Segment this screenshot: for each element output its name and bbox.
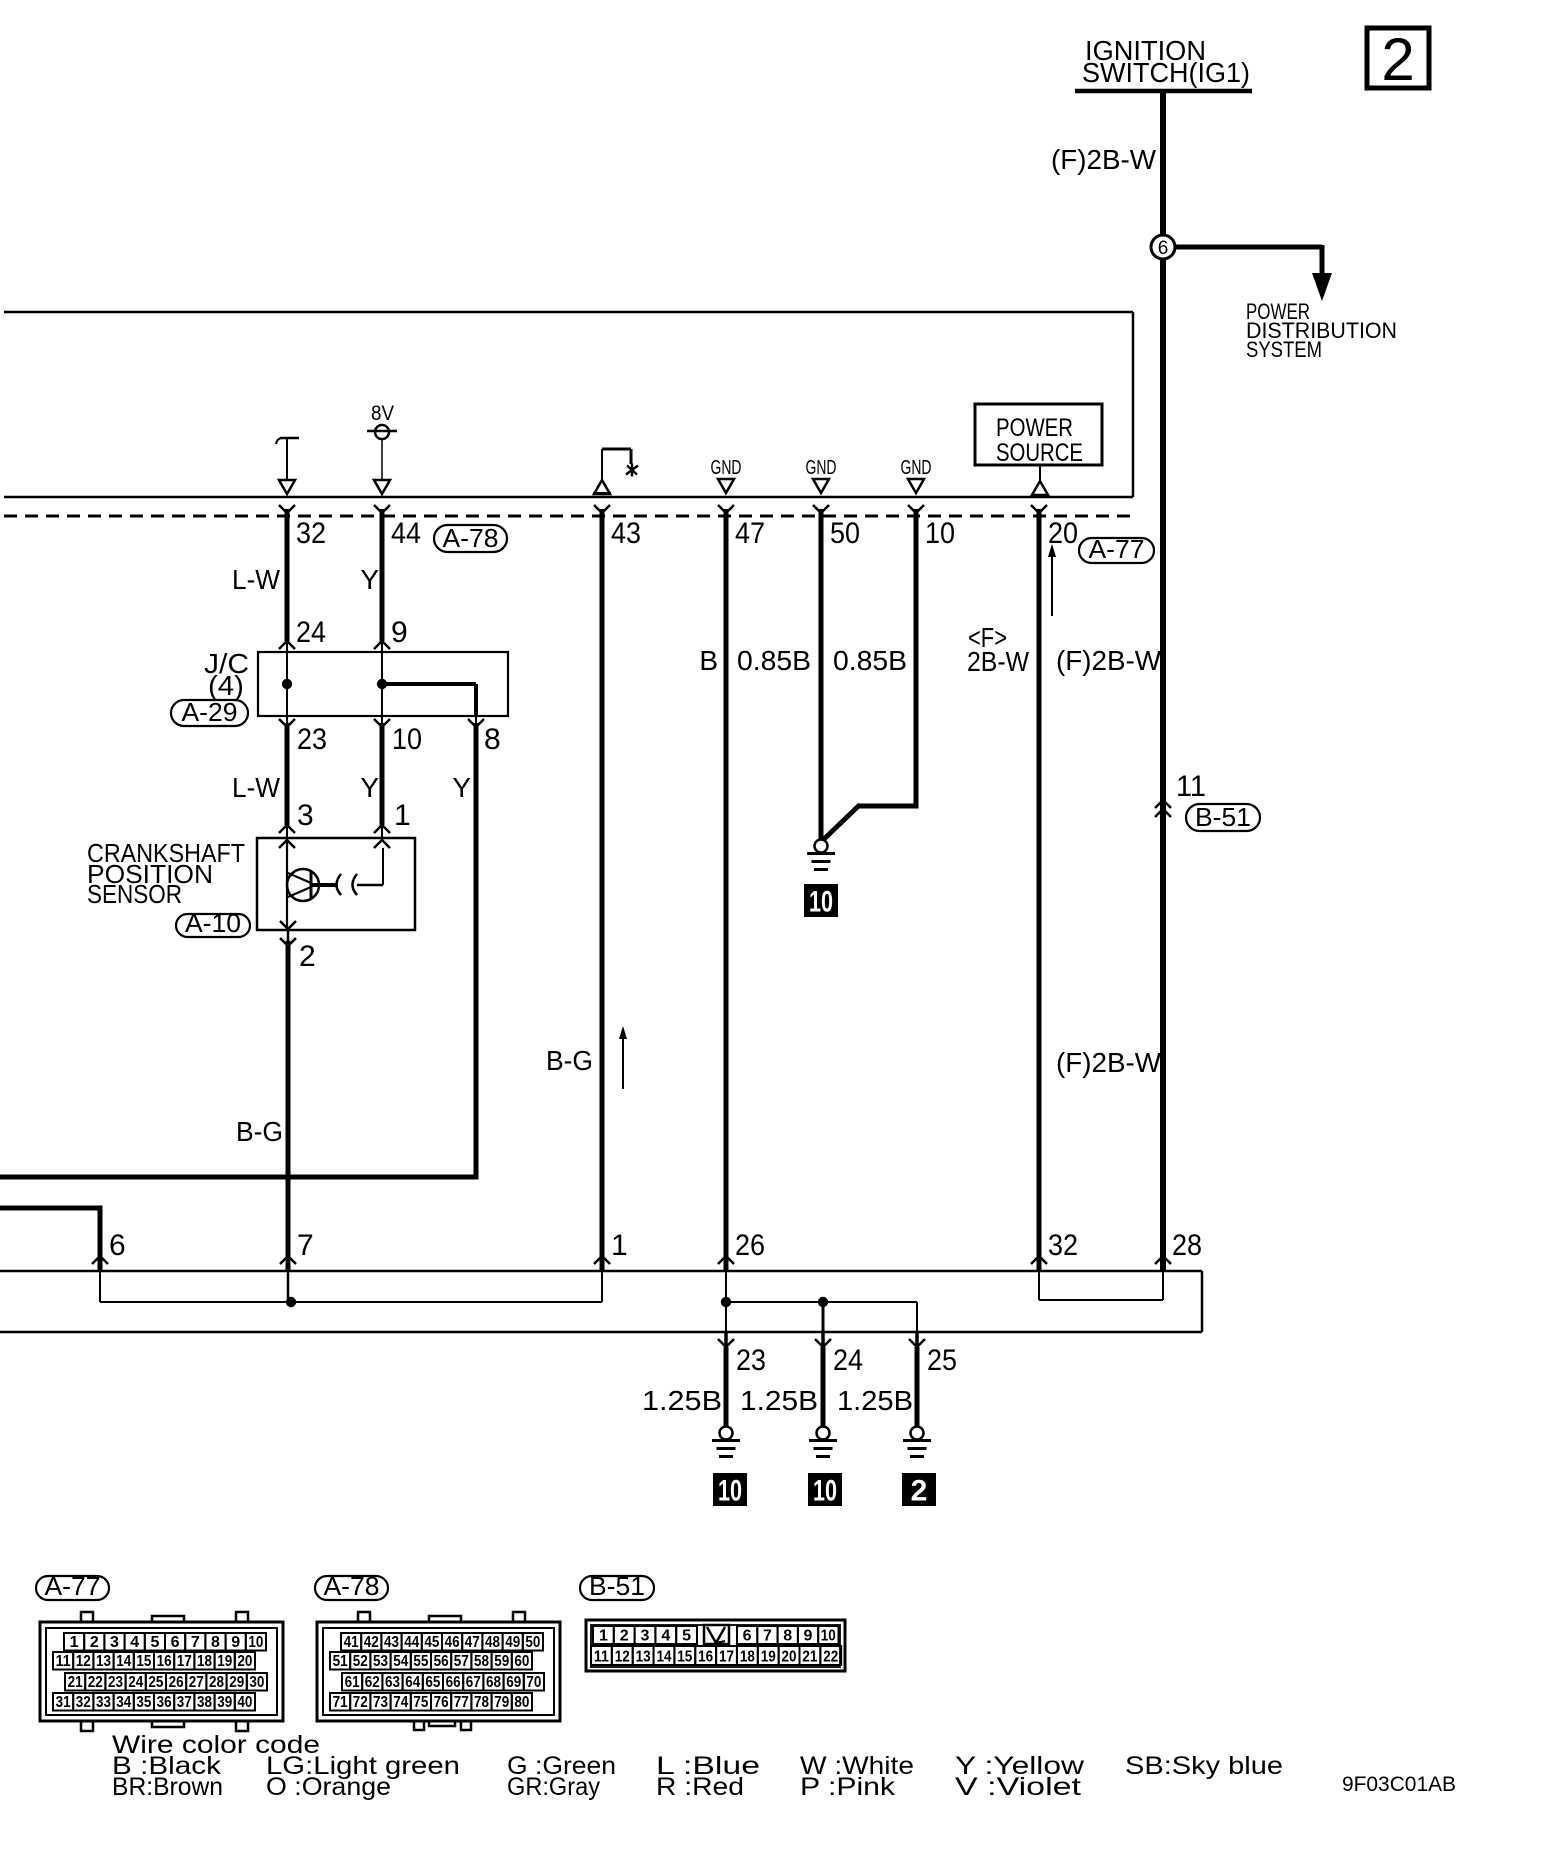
svg-text:47: 47 <box>465 1634 480 1651</box>
svg-text:GND: GND <box>901 457 932 479</box>
svg-text:SENSOR: SENSOR <box>87 879 182 909</box>
svg-text:66: 66 <box>446 1674 461 1691</box>
svg-text:37: 37 <box>177 1694 192 1711</box>
svg-text:73: 73 <box>373 1694 388 1711</box>
svg-text:6: 6 <box>171 1634 180 1651</box>
ECM pin 23 chevron and label <box>718 1339 766 1377</box>
ECM box <box>0 1271 1202 1332</box>
ground symbol pin 25 <box>903 1427 931 1457</box>
svg-text:71: 71 <box>333 1694 348 1711</box>
svg-text:BR:Brown: BR:Brown <box>112 1773 223 1801</box>
svg-text:R :Red: R :Red <box>656 1773 744 1801</box>
ground ref blackbox 10 <box>713 1473 747 1508</box>
wire branch to power distribution system <box>1163 245 1332 301</box>
pin 43 chevron at ECU connector <box>594 505 610 513</box>
svg-text:61: 61 <box>345 1674 360 1691</box>
svg-text:32: 32 <box>76 1694 91 1711</box>
ECM pin 7 chevron and label <box>280 1229 314 1264</box>
svg-text:8: 8 <box>783 1628 792 1645</box>
pin 50 label <box>830 517 860 550</box>
crankshaft position sensor box A-10 <box>257 838 415 930</box>
svg-text:21: 21 <box>802 1649 817 1666</box>
wire sensor pin 2 B-G to ECM pin 7 <box>287 931 290 1272</box>
label (F)2B-W lower <box>1056 1047 1162 1078</box>
svg-text:16: 16 <box>698 1649 713 1666</box>
svg-text:68: 68 <box>486 1674 501 1691</box>
svg-text:64: 64 <box>405 1674 420 1691</box>
svg-text:SOURCE: SOURCE <box>996 439 1083 467</box>
svg-text:3: 3 <box>110 1634 119 1651</box>
label CRANKSHAFT POSITION SENSOR <box>87 838 245 909</box>
sensor pin 3 chevron and label <box>279 799 314 833</box>
node IGNITION SWITCH(IG1) label <box>1075 35 1252 91</box>
ECM internal link pins 32-28 <box>1039 1271 1163 1300</box>
svg-text:Y: Y <box>360 772 379 803</box>
wire J/C 8 Y to off-page left <box>0 716 479 1180</box>
svg-text:44: 44 <box>404 1634 419 1651</box>
label Y third <box>452 772 471 803</box>
J/C pin 23 chevron and label <box>279 719 327 756</box>
label Y second <box>360 772 379 803</box>
ground symbol mid (wires 50/10) <box>807 840 835 870</box>
svg-text:B-G: B-G <box>546 1045 593 1076</box>
pin 47 label <box>735 517 765 550</box>
svg-text:44: 44 <box>391 517 421 550</box>
svg-text:24: 24 <box>128 1674 143 1691</box>
svg-text:A-77: A-77 <box>1089 534 1145 564</box>
label L-W lower <box>232 772 281 803</box>
J/C pin 9 chevron and label <box>374 616 408 649</box>
wire off-page left to ECM pin 6 <box>0 1206 100 1273</box>
pin 50 chevron at ECU connector <box>813 505 829 513</box>
svg-text:B-51: B-51 <box>1195 802 1251 832</box>
connector ref A-78 bottom <box>315 1571 388 1601</box>
connector ref A-78 <box>434 523 507 553</box>
labels 1.25B x3 <box>642 1385 913 1416</box>
svg-text:1: 1 <box>611 1229 628 1262</box>
svg-text:32: 32 <box>1048 1229 1078 1262</box>
svg-text:48: 48 <box>485 1634 500 1651</box>
label 0.85B second <box>833 645 907 676</box>
svg-text:76: 76 <box>434 1694 449 1711</box>
svg-text:SB:Sky blue: SB:Sky blue <box>1125 1752 1283 1780</box>
connector view A-77 pin grid <box>40 1612 283 1731</box>
wire ignition node 6 down to ECM pin 28 <box>1160 247 1166 1272</box>
ECM pin 6 chevron and label <box>92 1229 126 1264</box>
label Y <box>360 564 379 595</box>
svg-text:8: 8 <box>484 723 501 756</box>
svg-text:60: 60 <box>514 1653 529 1670</box>
svg-text:1.25B: 1.25B <box>642 1385 722 1416</box>
svg-text:B-51: B-51 <box>589 1571 645 1601</box>
pin 43 label <box>611 517 641 550</box>
wire pin 47 B to ECM pin 26 <box>724 509 729 1272</box>
svg-text:23: 23 <box>736 1344 766 1377</box>
ground ref blackbox 10 mid <box>804 884 838 919</box>
svg-text:13: 13 <box>96 1653 111 1670</box>
svg-text:10: 10 <box>718 1475 742 1508</box>
svg-text:25: 25 <box>927 1344 957 1377</box>
svg-text:GR:Gray: GR:Gray <box>507 1773 600 1801</box>
svg-text:49: 49 <box>505 1634 520 1651</box>
pin 44 label <box>391 517 421 550</box>
wire ECM pin 25 1.25B to ground <box>915 1332 919 1426</box>
svg-text:2: 2 <box>90 1634 99 1651</box>
svg-text:42: 42 <box>364 1634 379 1651</box>
svg-text:22: 22 <box>823 1649 838 1666</box>
J/C pin 8 chevron and label <box>468 719 501 756</box>
svg-text:20: 20 <box>1048 517 1078 550</box>
connector ref B-51 bottom <box>580 1571 654 1601</box>
svg-text:63: 63 <box>385 1674 400 1691</box>
svg-text:18: 18 <box>197 1653 212 1670</box>
svg-text:17: 17 <box>719 1649 734 1666</box>
ECM internal link pins 6-7-1 <box>100 1271 602 1307</box>
svg-text:34: 34 <box>116 1694 131 1711</box>
sensor internal chevrons at pins 3 and 1 <box>279 840 390 848</box>
wire pin 44 Y to J/C pin 9 <box>380 509 385 653</box>
svg-text:GND: GND <box>806 457 837 479</box>
svg-text:6: 6 <box>1158 238 1169 259</box>
connector view A-78 pin grid <box>317 1612 560 1730</box>
ECM pin 32 chevron and label <box>1031 1229 1078 1264</box>
svg-text:78: 78 <box>474 1694 489 1711</box>
J/C pin 24 chevron and label <box>279 616 326 649</box>
wire color code legend <box>112 1731 1283 1801</box>
svg-text:40: 40 <box>237 1694 252 1711</box>
svg-text:19: 19 <box>761 1649 776 1666</box>
svg-text:35: 35 <box>136 1694 151 1711</box>
ECM pin 25 chevron and label <box>909 1339 957 1377</box>
wire pin 10 0.85B to ground 10 <box>822 509 919 841</box>
wire ECM pin 24 1.25B to ground <box>821 1332 825 1426</box>
J/C pin 10 chevron and label <box>374 719 422 756</box>
svg-text:20: 20 <box>237 1653 252 1670</box>
svg-text:20: 20 <box>782 1649 797 1666</box>
label J/C (4) <box>204 648 249 701</box>
pin 10 label <box>925 517 955 550</box>
svg-text:1.25B: 1.25B <box>740 1385 818 1416</box>
pin 20 chevron at ECU connector <box>1031 505 1047 513</box>
svg-text:58: 58 <box>474 1653 489 1670</box>
svg-text:39: 39 <box>217 1694 232 1711</box>
svg-text:B-G: B-G <box>236 1116 283 1147</box>
svg-text:1.25B: 1.25B <box>837 1385 913 1416</box>
drawing code 9F03C01AB <box>1342 1773 1456 1796</box>
svg-text:B: B <box>699 645 718 676</box>
svg-text:24: 24 <box>296 616 326 649</box>
svg-text:15: 15 <box>136 1653 151 1670</box>
svg-text:57: 57 <box>454 1653 469 1670</box>
svg-text:3: 3 <box>297 799 314 832</box>
POWER SOURCE box <box>975 404 1102 467</box>
svg-text:(F)2B-W: (F)2B-W <box>1056 1047 1162 1078</box>
svg-text:75: 75 <box>413 1694 428 1711</box>
svg-text:Y: Y <box>452 772 471 803</box>
svg-text:2: 2 <box>299 940 316 973</box>
pin 47 chevron at ECU connector <box>718 505 734 513</box>
svg-text:2: 2 <box>911 1475 928 1508</box>
svg-text:11: 11 <box>594 1649 609 1666</box>
connector B-51 crossing on ignition wire, pin 11 <box>1155 770 1260 832</box>
svg-text:74: 74 <box>393 1694 408 1711</box>
svg-text:43: 43 <box>611 517 641 550</box>
pin 32 chevron at ECU connector <box>279 505 295 513</box>
connector ref A-10 <box>176 908 250 938</box>
sensor internal pickup symbol <box>287 840 383 930</box>
svg-text:46: 46 <box>445 1634 460 1651</box>
svg-text:7: 7 <box>191 1634 200 1651</box>
svg-text:26: 26 <box>169 1674 184 1691</box>
svg-text:Y: Y <box>360 564 379 595</box>
svg-text:51: 51 <box>333 1653 348 1670</box>
svg-text:80: 80 <box>514 1694 529 1711</box>
svg-text:30: 30 <box>249 1674 264 1691</box>
svg-text:29: 29 <box>229 1674 244 1691</box>
svg-text:9F03C01AB: 9F03C01AB <box>1342 1773 1456 1796</box>
ground symbol pin 24 <box>809 1427 837 1457</box>
svg-text:10: 10 <box>809 886 833 919</box>
svg-text:55: 55 <box>413 1653 428 1670</box>
svg-text:52: 52 <box>353 1653 368 1670</box>
connector view B-51 pin grid <box>586 1620 845 1671</box>
svg-text:11: 11 <box>56 1653 71 1670</box>
junction block J/C (4) box <box>258 652 508 716</box>
svg-text:0.85B: 0.85B <box>737 645 811 676</box>
svg-text:A-10: A-10 <box>185 908 241 938</box>
svg-text:38: 38 <box>197 1694 212 1711</box>
ground ref blackbox 2 <box>902 1473 936 1508</box>
ECM pin 26 chevron and label <box>718 1229 765 1264</box>
svg-text:9: 9 <box>391 616 408 649</box>
svg-text:6: 6 <box>109 1229 126 1262</box>
ECU box (engine control module, off-page left) <box>4 312 1133 497</box>
svg-text:72: 72 <box>353 1694 368 1711</box>
svg-text:A-78: A-78 <box>443 523 499 553</box>
svg-text:12: 12 <box>615 1649 630 1666</box>
label B-G lower left <box>236 1116 283 1147</box>
wire pin 32 L-W to J/C pin 24 <box>285 509 290 653</box>
label (F)2B-W top <box>1051 144 1157 175</box>
svg-text:65: 65 <box>425 1674 440 1691</box>
svg-text:53: 53 <box>373 1653 388 1670</box>
svg-text:31: 31 <box>56 1694 71 1711</box>
svg-text:A-78: A-78 <box>324 1571 380 1601</box>
J/C internal wire pin9 to pin10 and pin8 <box>377 653 476 716</box>
pin 44 chevron at ECU connector <box>374 505 390 513</box>
svg-text:V :Violet: V :Violet <box>955 1773 1081 1801</box>
POWER SOURCE pin symbol (pin 20) <box>1032 465 1048 495</box>
sensor pin 1 chevron and label <box>374 799 411 833</box>
svg-text:15: 15 <box>677 1649 692 1666</box>
svg-text:L-W: L-W <box>232 564 281 595</box>
svg-text:10: 10 <box>925 517 955 550</box>
svg-text:2: 2 <box>620 1628 629 1645</box>
svg-text:33: 33 <box>96 1694 111 1711</box>
ground symbol pin 23 <box>712 1427 740 1457</box>
label B / 0.85B <box>699 645 811 676</box>
label POWER DISTRIBUTION SYSTEM <box>1246 299 1397 362</box>
svg-text:0.85B: 0.85B <box>833 645 907 676</box>
wire ignition switch to node 6 <box>1160 93 1166 247</box>
label (F)2B-W right of pin 20 <box>1056 645 1162 676</box>
svg-text:10: 10 <box>821 1628 836 1645</box>
svg-text:14: 14 <box>656 1649 671 1666</box>
svg-text:50: 50 <box>525 1634 540 1651</box>
svg-text:11: 11 <box>1176 770 1206 803</box>
sensor pin 2 chevrons and label <box>280 921 316 973</box>
svg-text:1: 1 <box>394 799 411 832</box>
connector ref A-29 <box>171 697 248 727</box>
svg-text:1: 1 <box>70 1634 79 1651</box>
svg-text:16: 16 <box>157 1653 172 1670</box>
svg-text:19: 19 <box>217 1653 232 1670</box>
svg-text:69: 69 <box>506 1674 521 1691</box>
svg-text:A-77: A-77 <box>45 1571 101 1601</box>
wire J/C 10 Y to sensor pin 1 <box>381 716 383 838</box>
svg-text:7: 7 <box>297 1229 314 1262</box>
svg-text:1: 1 <box>599 1628 608 1645</box>
label L-W <box>232 564 281 595</box>
ECM pin 24 chevron and label <box>815 1339 863 1377</box>
label <F> 2B-W with up arrow <box>967 544 1056 677</box>
svg-text:GND: GND <box>711 457 742 479</box>
svg-text:25: 25 <box>148 1674 163 1691</box>
svg-text:28: 28 <box>1172 1229 1202 1262</box>
svg-text:22: 22 <box>88 1674 103 1691</box>
svg-text:56: 56 <box>434 1653 449 1670</box>
label B-G with direction arrow <box>546 1026 627 1089</box>
svg-text:23: 23 <box>297 723 327 756</box>
svg-text:O :Orange: O :Orange <box>266 1773 391 1801</box>
ECU internal 8V supply symbol (pin 44) <box>367 402 397 494</box>
svg-text:41: 41 <box>344 1634 359 1651</box>
svg-text:10: 10 <box>248 1634 263 1651</box>
connector ref A-77 <box>1079 534 1154 564</box>
svg-text:59: 59 <box>494 1653 509 1670</box>
svg-text:24: 24 <box>833 1344 863 1377</box>
svg-text:12: 12 <box>76 1653 91 1670</box>
svg-text:62: 62 <box>365 1674 380 1691</box>
svg-text:21: 21 <box>68 1674 83 1691</box>
ECM pin 1 chevron and label <box>594 1229 628 1264</box>
svg-text:13: 13 <box>636 1649 651 1666</box>
svg-text:(F)2B-W: (F)2B-W <box>1056 645 1162 676</box>
svg-text:47: 47 <box>735 517 765 550</box>
ECM internal link pins 26-23-24-25 <box>721 1271 917 1332</box>
wire pin 43 B-G to ECM pin 1 <box>600 509 605 1272</box>
svg-text:10: 10 <box>392 723 422 756</box>
svg-text:45: 45 <box>424 1634 439 1651</box>
svg-text:67: 67 <box>466 1674 481 1691</box>
pin 10 chevron at ECU connector <box>908 505 924 513</box>
svg-text:14: 14 <box>116 1653 131 1670</box>
svg-text:50: 50 <box>830 517 860 550</box>
svg-text:70: 70 <box>526 1674 541 1691</box>
svg-text:5: 5 <box>682 1628 691 1645</box>
svg-text:4: 4 <box>661 1628 670 1645</box>
svg-text:43: 43 <box>384 1634 399 1651</box>
ECU GND symbol (pin 10) <box>901 457 932 493</box>
ECU internal chassis symbol (pin 43) <box>593 449 638 494</box>
ECU GND symbol (pin 47) <box>711 457 742 493</box>
connector boundary dashed line A-77/A-78 <box>4 515 1133 518</box>
svg-text:POWER: POWER <box>996 414 1073 442</box>
svg-text:7: 7 <box>763 1628 772 1645</box>
ground ref blackbox 10 <box>808 1473 842 1508</box>
svg-text:26: 26 <box>735 1229 765 1262</box>
svg-text:5: 5 <box>150 1634 159 1651</box>
svg-text:17: 17 <box>177 1653 192 1670</box>
ECU internal output symbol (pin 32) <box>276 438 299 494</box>
svg-text:36: 36 <box>157 1694 172 1711</box>
svg-text:2: 2 <box>1381 26 1414 93</box>
wire J/C 23 L-W to sensor pin 3 <box>286 716 288 838</box>
svg-text:18: 18 <box>740 1649 755 1666</box>
wire pin 20 (F)2B-W to ECM pin 32 <box>1037 509 1042 1272</box>
ECM pin 28 chevron and label <box>1155 1229 1202 1264</box>
svg-text:(F)2B-W: (F)2B-W <box>1051 144 1157 175</box>
svg-text:28: 28 <box>209 1674 224 1691</box>
svg-text:3: 3 <box>641 1628 650 1645</box>
svg-text:23: 23 <box>108 1674 123 1691</box>
svg-text:54: 54 <box>393 1653 408 1670</box>
svg-text:77: 77 <box>454 1694 469 1711</box>
node 6 circle <box>1151 235 1175 259</box>
svg-text:79: 79 <box>494 1694 509 1711</box>
ECU GND symbol (pin 50) <box>806 457 837 493</box>
J/C internal wire pin24 to pin23 <box>282 653 292 716</box>
svg-text:32: 32 <box>296 517 326 550</box>
page number box 2 <box>1367 26 1429 93</box>
svg-text:SWITCH(IG1): SWITCH(IG1) <box>1082 57 1250 88</box>
svg-text:8V: 8V <box>371 402 394 425</box>
svg-text:8: 8 <box>211 1634 220 1651</box>
wire pin 50 0.85B to ground 10 <box>819 509 824 839</box>
svg-text:A-29: A-29 <box>182 697 238 727</box>
svg-text:6: 6 <box>743 1628 752 1645</box>
pin 20 label <box>1048 517 1078 550</box>
svg-text:4: 4 <box>130 1634 139 1651</box>
svg-text:L-W: L-W <box>232 772 281 803</box>
svg-text:P :Pink: P :Pink <box>800 1773 896 1801</box>
svg-text:10: 10 <box>813 1475 837 1508</box>
svg-text:9: 9 <box>804 1628 813 1645</box>
svg-text:27: 27 <box>189 1674 204 1691</box>
connector ref A-77 bottom <box>36 1571 109 1601</box>
pin 32 label <box>296 517 326 550</box>
svg-text:SYSTEM: SYSTEM <box>1246 337 1322 362</box>
svg-text:9: 9 <box>231 1634 240 1651</box>
wire ECM pin 23 1.25B to ground <box>724 1332 728 1426</box>
svg-text:2B-W: 2B-W <box>967 646 1030 677</box>
